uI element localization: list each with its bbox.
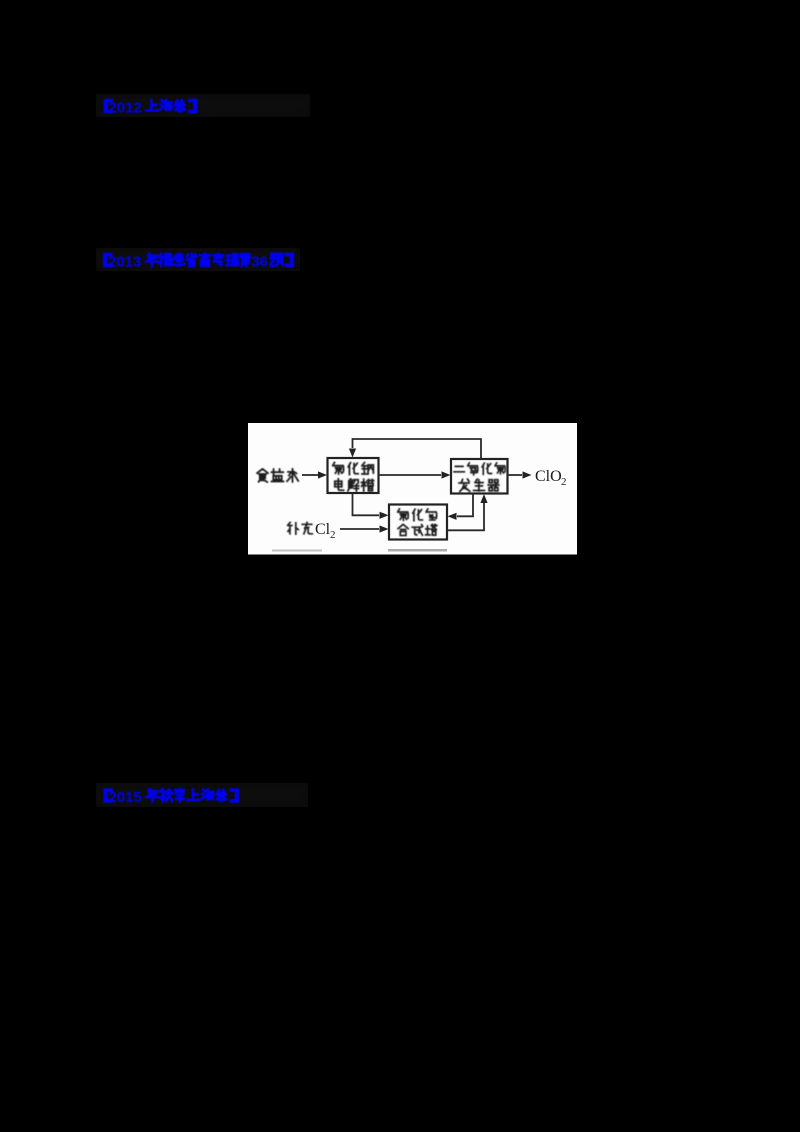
wire: recycle loop box2 top to box1 top [353, 439, 482, 459]
wire: supplementary Cl2 arrow into box3 [340, 528, 379, 530]
box1 text line1 氯化钠 [333, 462, 374, 474]
wire: box1 bottom to box3 left [353, 493, 380, 515]
svg-text:2: 2 [330, 529, 336, 541]
label: supplementary 补充 [288, 522, 313, 534]
svg-text:ClO: ClO [535, 468, 562, 485]
svg-text:2013: 2013 [108, 254, 141, 271]
box3 text line1 氯化氢 [398, 509, 437, 521]
wire: brine feed arrow into box1 [302, 474, 318, 476]
svg-text:2012: 2012 [109, 100, 142, 117]
box1 text line2 电解槽 [335, 479, 374, 491]
heading 2: [2013 Fujian exam Q36] [103, 253, 294, 271]
box2 text line1 二氧化氯 [454, 463, 505, 475]
label: brine 食盐水 [257, 469, 298, 482]
svg-text:36: 36 [251, 254, 268, 271]
svg-text:Cl: Cl [315, 521, 331, 538]
wire: box3 right up into box2 bottom [447, 503, 484, 530]
process box: HCl synthesis tower (box3) [389, 505, 447, 540]
white diagram panel [248, 423, 577, 555]
wire: box2 output to ClO2 label [508, 474, 523, 476]
heading 3: [2015 autumn Shanghai] [104, 788, 239, 806]
wire: box2 bottom down-left into box3 right [457, 494, 473, 517]
heading 1: [2012 Shanghai] [104, 99, 198, 117]
process box: ClO2 generator (box2) [451, 459, 508, 494]
faint scan artifact streaks [272, 550, 322, 552]
svg-text:2015: 2015 [109, 789, 142, 806]
process box: NaCl electrolysis cell (box1) [328, 458, 379, 493]
svg-text:2: 2 [561, 476, 567, 488]
box2 text line2 发生器 [459, 479, 499, 491]
wire: box1 to box2 arrow [379, 474, 442, 476]
box3 text line2 合成塔 [398, 524, 437, 535]
